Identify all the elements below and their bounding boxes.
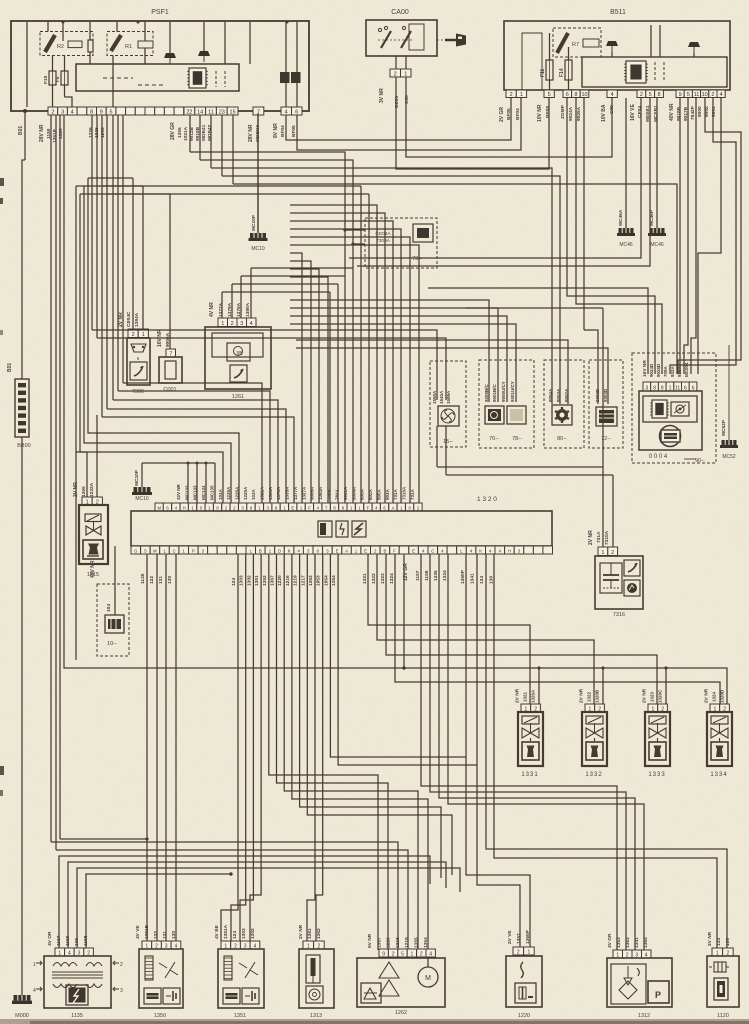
scan artifact bottom edge band bbox=[0, 1019, 749, 1024]
mid nest concentric elbows bbox=[329, 292, 331, 503]
nest wire to 72-- pin2 bbox=[296, 348, 608, 404]
nest wires to 1320 top pins right section bbox=[290, 205, 377, 503]
wires into 1261 pins bbox=[221, 292, 223, 318]
ground stud M000 bbox=[12, 995, 32, 1004]
1320 bottom pin row bbox=[131, 546, 553, 554]
resistive cable BB00 bbox=[15, 379, 29, 437]
wires into 7316 bbox=[602, 308, 604, 547]
ignition key symbol bbox=[437, 34, 466, 47]
wires BF04 BF05 from PSF1 to BSI1 bbox=[286, 98, 511, 140]
connector 10-- (dashed) bbox=[97, 584, 129, 656]
relay R2 (dashed) bbox=[40, 32, 93, 56]
wires 1360P group to 1220 and 1120 bbox=[466, 554, 530, 947]
node B01 exit of PSF1 bbox=[23, 109, 27, 113]
splice MC10 upper with pad bbox=[257, 113, 259, 233]
wire C00 from CA00 to BSI1 pin 4 bbox=[406, 77, 612, 157]
splice pad in BSI1 right bbox=[688, 42, 700, 53]
nest wires to display 70-- 78-- bbox=[290, 300, 489, 402]
control panel 0004 / 90-- (dashed) bbox=[632, 353, 716, 463]
paper grain overlay bbox=[0, 0, 1, 1]
wires BSI1 16V VE pins into left nest bbox=[349, 98, 641, 258]
wires 12V GR group down to 1312 bbox=[421, 554, 617, 950]
nest wire to control panel 0004 left pin bbox=[428, 288, 648, 374]
scan artifact left edge dashes bbox=[0, 178, 4, 186]
BSI1 internal IC bbox=[624, 61, 648, 83]
dashed interior light box CE04A 7309A 73-- bbox=[365, 218, 437, 268]
engine-bay fuse/relay box PSF1 bbox=[11, 21, 309, 111]
PSF1 internal IC bbox=[187, 68, 208, 88]
PSF1 bottom connector pin row bbox=[48, 107, 213, 115]
wires 1320 pins to 1220 elbows bbox=[330, 554, 466, 757]
wires into 1215 bbox=[86, 460, 88, 497]
fuse F14 bbox=[565, 60, 572, 80]
wires BSI1 right pins jog to right edge and into 0004 bbox=[678, 98, 741, 374]
wire from PSF1 pin 15 to control panel 0004 bbox=[233, 184, 677, 374]
fuse F11 bbox=[546, 60, 553, 80]
splice pad 1 in PSF1 bbox=[164, 53, 176, 64]
wires left bundle elbows to 1262 bbox=[51, 842, 398, 950]
BSI1 internal module rect bbox=[582, 57, 727, 87]
PSF1 component MK4 dark block bbox=[280, 72, 290, 83]
wires PSF1 pins 8-9-5 to mid nest bbox=[112, 115, 114, 400]
wires 1321-1324 to solenoid valves bbox=[368, 554, 530, 704]
band wires to blower control 80-- bbox=[211, 168, 552, 404]
BSI1 internal left rect bbox=[522, 33, 542, 90]
bus riser from 1320 to solenoid common bbox=[403, 554, 405, 668]
wires 1320 mid pins staircase to 1262 bbox=[269, 554, 378, 950]
wire B01 lower segment to ground M000 bbox=[21, 437, 23, 995]
0004 knob circle bbox=[660, 426, 681, 447]
fan unit 15-- (dashed) bbox=[430, 361, 466, 447]
relay R7 (dashed) inside BSI1 bbox=[553, 28, 601, 57]
wire from C001 to left riser bbox=[80, 194, 170, 349]
fuse F10 bbox=[49, 71, 56, 85]
fuse F5 bbox=[61, 71, 68, 85]
ignition switch CA00 bbox=[366, 20, 437, 56]
wires 9024A 9025A from BSI1 to 0004 bbox=[567, 98, 655, 374]
wire 104 into 10-- bbox=[114, 546, 116, 615]
wire bundle 1226/1225/1203 descending bbox=[91, 115, 93, 330]
PSF1 internal module rectangle bbox=[76, 64, 239, 91]
wire down to 72-- box pin1 bbox=[584, 330, 598, 404]
BSI1 bottom connector pins bbox=[506, 90, 527, 98]
PSF1 internal wires bbox=[26, 22, 28, 107]
connector unit 1320 body bbox=[131, 511, 552, 546]
wire from PSF1 left to 7306 area bbox=[88, 177, 133, 179]
splice pad in BSI1 left bbox=[606, 41, 618, 52]
splice pad 2 in PSF1 bbox=[198, 51, 210, 62]
body control unit BSI1 bbox=[504, 21, 730, 90]
wire 1320 top feed elbows from left (y 383-417) bbox=[123, 383, 262, 503]
wire elbows y433-452 to 1320 top pins bbox=[88, 178, 239, 503]
common bus wire 1320 to solenoid valves pin 2 bbox=[64, 115, 727, 704]
BSI1 internal wires bbox=[549, 33, 551, 60]
connector unit 1320 top pin row bbox=[155, 503, 422, 511]
MC10 bus to MC13x pins bbox=[141, 463, 143, 487]
wire BE06 from CA00 to BSI1 pin 5 bbox=[396, 77, 549, 169]
wire into 73-- box bbox=[345, 229, 365, 231]
wire B01 from PSF1 to BB00 to M000 bbox=[24, 113, 26, 160]
wire ZOMP to 72-- area bbox=[583, 98, 585, 330]
wires to 15-- fan box bbox=[92, 330, 437, 400]
wires BSI1 40V NR group to 0004 bbox=[679, 98, 681, 374]
CA00 connector 2|1 bbox=[390, 69, 411, 77]
unit 72-- (dashed) bbox=[589, 360, 623, 448]
relay R1 (dashed) bbox=[107, 32, 153, 56]
wires from PSF1 28VGR pins down to nest band y152-200 bbox=[189, 115, 191, 152]
blower control 80-- (dashed) bbox=[544, 360, 584, 448]
1320 internal icons bbox=[318, 521, 332, 537]
wires 1320 left pins down to 1350 bbox=[146, 554, 148, 941]
CA00 switch contacts bbox=[381, 31, 391, 48]
wires into ignition transformer 1135 bbox=[59, 856, 430, 948]
wires 1320 mid pins down to 1351 and 1313 bbox=[221, 554, 238, 941]
band risers to 1320 top bbox=[360, 186, 362, 503]
display units 70-- 78-- (dashed) bbox=[479, 360, 534, 448]
fuse link between relays bbox=[88, 40, 93, 52]
wire bundle PSF1 pins 2-3-4 descending left bbox=[50, 115, 52, 842]
nest band y150-200 long horizontals bbox=[190, 152, 345, 503]
nest wire to blower control 80-- pin3 bbox=[296, 340, 568, 404]
